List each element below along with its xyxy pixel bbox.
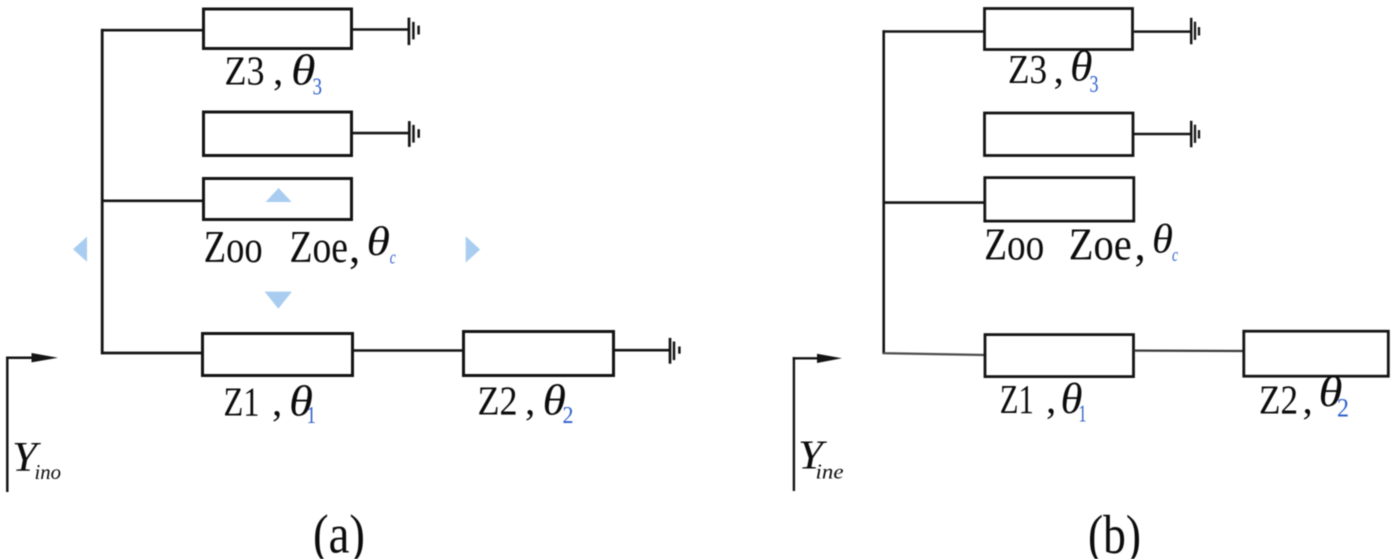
svg-text:Z2: Z2: [1259, 376, 1298, 422]
svg-text:,: ,: [349, 222, 360, 272]
node label Y_ino (a): [12, 435, 61, 484]
svg-text:Zoe: Zoe: [1069, 220, 1132, 270]
value label Z1, theta1 (a): [224, 379, 317, 429]
wire: bus to Z1 (a): [101, 352, 202, 355]
svg-text:2: 2: [1337, 394, 1349, 423]
svg-text:(a): (a): [313, 504, 365, 559]
svg-text:Zoe: Zoe: [290, 222, 349, 272]
svg-text:,: ,: [1046, 376, 1056, 422]
transmission line Z1 (b): [985, 335, 1134, 377]
wire: input bus vertical (a): [101, 29, 104, 354]
svg-text:Z1: Z1: [224, 379, 260, 425]
wire: bus to Z3 top (b): [883, 30, 985, 33]
value label Z2, theta2 (b): [1259, 369, 1349, 423]
svg-text:Z2: Z2: [478, 377, 518, 423]
value label Zoo Zoe, theta c (b): [984, 216, 1178, 270]
transmission line Z3 (b): [985, 9, 1133, 50]
svg-text:Zoo: Zoo: [204, 222, 263, 272]
svg-text:,: ,: [1054, 46, 1064, 92]
svg-text:Zoo: Zoo: [984, 220, 1044, 270]
input port arrow Yino (a): [6, 353, 58, 492]
svg-text:,: ,: [1303, 376, 1313, 422]
ground symbol G3 (a): [670, 338, 679, 364]
ground symbol G2 (a): [409, 121, 418, 147]
svg-text:ine: ine: [816, 460, 844, 484]
caption (b): [1088, 504, 1141, 559]
value label Z1, theta1 (b): [1000, 376, 1087, 428]
input port arrow Yine (b): [793, 354, 842, 491]
transmission line coupled section lower (b): [985, 178, 1134, 222]
ground symbol G2 (b): [1191, 121, 1199, 148]
wire: Z1 to Z2 (a): [354, 349, 463, 352]
transmission line Z2 (b): [1244, 331, 1389, 376]
wire: coupled upper to ground (a): [353, 132, 408, 135]
svg-text:Z3: Z3: [225, 47, 265, 93]
wire: bus to coupled lower (a): [101, 199, 203, 202]
marker arrow down (a): [265, 292, 292, 309]
svg-text:,: ,: [272, 379, 282, 425]
svg-text:1: 1: [307, 403, 317, 429]
marker arrow up (a): [266, 188, 292, 202]
transmission line coupled section upper (a): [204, 112, 352, 156]
svg-text:θ: θ: [367, 218, 391, 264]
svg-text:,: ,: [525, 377, 535, 423]
transmission line Z2 (a): [464, 332, 614, 376]
svg-text:3: 3: [1090, 72, 1099, 98]
svg-text:3: 3: [313, 75, 323, 101]
value label Z3, theta3 (b): [1008, 44, 1099, 99]
wire: coupled upper to ground (b): [1134, 133, 1190, 136]
transmission line coupled section upper (b): [985, 113, 1134, 156]
transmission line Z1 (a): [203, 334, 353, 376]
svg-text:(b): (b): [1088, 504, 1141, 559]
value label Zoo Zoe, theta c (a): [204, 218, 396, 272]
wire: Z3 to ground (b): [1134, 30, 1190, 33]
svg-text:c: c: [1172, 245, 1178, 266]
marker arrow left (a): [73, 237, 87, 262]
wire: Z2 to ground (a): [615, 349, 669, 352]
node label Y_ine (b): [798, 432, 844, 484]
ground symbol G1 (a): [409, 18, 419, 45]
svg-text:,: ,: [1135, 220, 1146, 270]
wire: Z1 to Z2 (b): [1134, 350, 1243, 353]
svg-text:c: c: [390, 248, 396, 269]
wire: bus to Z3 top (a): [101, 29, 203, 32]
svg-text:θ: θ: [1152, 216, 1173, 262]
transmission line Z3 (a): [204, 9, 352, 49]
value label Z3, theta3 (a): [225, 47, 323, 100]
wire: Z3 to ground (a): [353, 28, 408, 31]
wire: bus to Z1 (b): [883, 353, 985, 355]
marker arrow right (a): [466, 236, 480, 262]
svg-text:ino: ino: [35, 460, 62, 484]
svg-text:1: 1: [1079, 402, 1087, 428]
svg-text:,: ,: [273, 47, 283, 93]
svg-text:2: 2: [563, 403, 574, 429]
wire: bus to coupled lower (b): [883, 201, 986, 204]
wire: input bus vertical (b): [882, 30, 885, 354]
svg-text:Z1: Z1: [1000, 376, 1034, 422]
svg-text:Z3: Z3: [1008, 46, 1047, 92]
caption (a): [313, 504, 365, 559]
ground symbol G1 (b): [1191, 18, 1199, 45]
value label Z2, theta2 (a): [478, 377, 574, 429]
transmission line coupled section lower (a): [204, 179, 352, 220]
